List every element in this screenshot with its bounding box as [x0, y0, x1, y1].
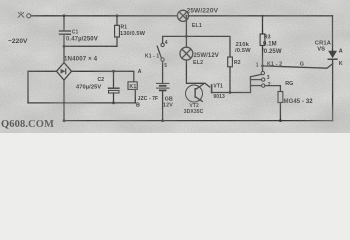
resistor R2 — [228, 57, 233, 67]
node EL2/K1-1/R2 — [185, 35, 188, 38]
wire dc minus node line — [28, 102, 135, 104]
switch K1-1 contact top — [161, 43, 164, 46]
rectifier bridge 1N4007x4 — [57, 63, 72, 80]
wire R1 top lead — [116, 16, 118, 25]
wire bottom rail — [64, 120, 333, 122]
bridge diode — [61, 69, 66, 74]
transistor VT1 — [211, 84, 213, 93]
node C1/R1 junction — [63, 45, 66, 48]
thyristor VS — [328, 51, 337, 58]
lamp EL2 — [180, 47, 193, 60]
node R2 bottom — [229, 91, 232, 94]
wire node to R2 — [186, 36, 230, 57]
node gate junction — [261, 65, 264, 68]
wire R1 bottom lead — [65, 37, 117, 46]
resistor R1 — [115, 25, 120, 37]
switch K1-2 arm — [251, 74, 262, 76]
wire stub contact 2 — [251, 85, 262, 87]
wire node to K1-1 — [163, 36, 187, 43]
capacitor C2 electrolytic — [109, 87, 120, 89]
lamp EL1 — [177, 10, 188, 21]
node C2 top — [112, 70, 115, 73]
wire contact common vertical — [250, 77, 252, 93]
wire gate line G — [263, 64, 333, 68]
terminal 火 (live input) — [27, 14, 31, 18]
wire SCR cathode to bottom rail — [332, 59, 334, 120]
wire battery to bottom rail — [162, 90, 164, 120]
wire VT1 emitter line — [212, 92, 250, 94]
node RG bottom — [279, 119, 282, 122]
node C2 bottom — [112, 102, 115, 105]
wire top rail left — [31, 15, 177, 17]
node R1 top — [116, 14, 119, 17]
node bridge bottom cross — [63, 102, 66, 105]
node EL2 tap on rail — [185, 15, 187, 17]
scan grain overlay — [0, 0, 350, 133]
switch K1-1 contact bottom — [161, 58, 164, 61]
wire EL2 tap drop — [185, 16, 187, 37]
label 火 — [18, 12, 24, 18]
wire R2 bottom lead — [229, 67, 231, 93]
wire C1 bottom — [63, 35, 65, 47]
wire R3 bottom lead — [262, 46, 264, 66]
relay contact K1-2 pin 3 — [262, 78, 265, 81]
wire C1 drop — [63, 16, 65, 31]
wire contact 2 to RG — [265, 86, 281, 92]
wire top rail right — [189, 15, 333, 17]
wire K1-1 to battery — [162, 61, 164, 83]
wire right rail to SCR anode — [332, 16, 334, 51]
relay contact K1-2 pin 2 — [262, 84, 265, 87]
wire stub contact 3 — [251, 79, 262, 81]
relay contact K1-2 pin 1 — [261, 71, 264, 74]
capacitor C1 — [60, 31, 71, 34]
node bottom rail left — [63, 119, 66, 122]
wire bridge left loop — [28, 71, 57, 103]
resistor R3 — [260, 34, 265, 46]
wire EL2 top lead — [185, 36, 187, 47]
wire K1 pin B — [134, 89, 136, 103]
wire EL2 bottom to VT1 base — [186, 60, 209, 87]
node battery bottom — [161, 119, 164, 122]
transistor VT2 — [186, 85, 203, 102]
photoresistor RG — [278, 92, 283, 103]
node C1 top — [63, 14, 66, 17]
wire bridge bottom drop — [63, 80, 65, 121]
wire RG bottom lead — [279, 103, 281, 121]
switch K1-1 arm — [157, 46, 161, 58]
wire gate junction to contact 1 — [262, 66, 264, 72]
wire R3 top lead — [262, 16, 264, 34]
wire junction to bridge — [63, 46, 65, 62]
wire bridge right to K1 — [72, 71, 134, 82]
node R3 top — [261, 15, 263, 17]
wire C2 top lead — [113, 71, 115, 87]
wire C2 bottom lead — [113, 93, 115, 103]
battery GB — [157, 82, 170, 84]
relay coil K1 — [128, 82, 137, 90]
